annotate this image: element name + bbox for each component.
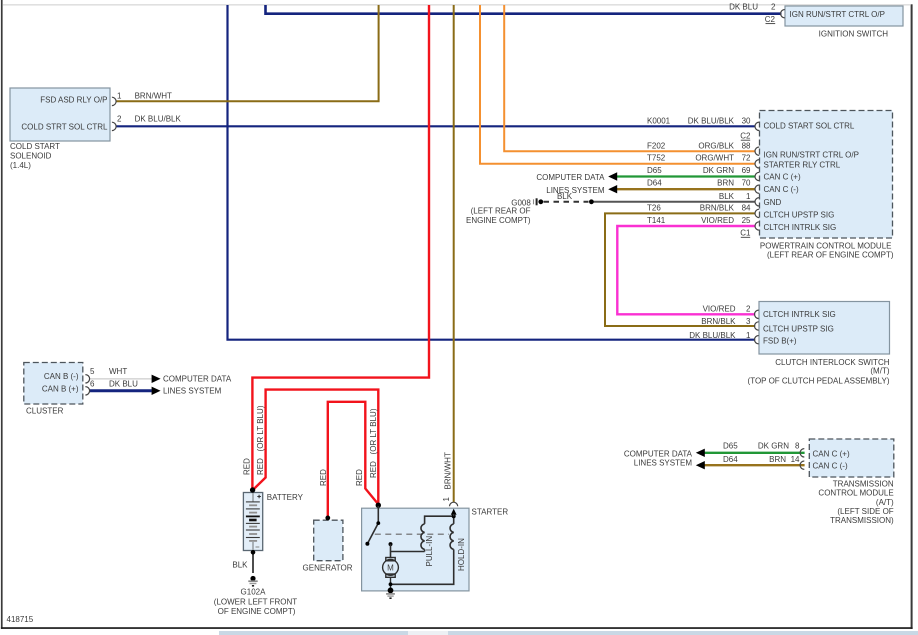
wire ORG/BLK F202: from top to PCM pin 88 xyxy=(504,5,755,151)
ground: starter case ground xyxy=(386,588,395,600)
svg-text:STARTER: STARTER xyxy=(472,508,509,517)
node: motor bottom junction xyxy=(389,582,393,586)
component box: powertrain control module U1 xyxy=(760,111,893,239)
arrow: computer data lines (cluster WHT) xyxy=(152,375,161,383)
label: cold start solenoid name xyxy=(10,142,60,170)
svg-text:8: 8 xyxy=(795,442,800,451)
svg-text:CAN B (+): CAN B (+) xyxy=(42,385,79,394)
node: battery positive junction xyxy=(250,487,255,492)
svg-text:STARTER RLY CTRL: STARTER RLY CTRL xyxy=(764,161,841,170)
svg-text:T141: T141 xyxy=(647,216,666,225)
svg-text:25: 25 xyxy=(742,216,751,225)
svg-text:RED (OR LT BLU): RED (OR LT BLU) xyxy=(369,408,378,478)
svg-text:VIO/RED: VIO/RED xyxy=(701,216,734,225)
node: switch fixed contact xyxy=(389,542,393,546)
svg-text:(A/T): (A/T) xyxy=(876,498,894,507)
wire BLK: battery negative to ground G102A xyxy=(252,550,254,573)
svg-text:TRANSMISSION): TRANSMISSION) xyxy=(830,516,894,525)
motor M1: starter motor xyxy=(383,558,399,591)
svg-text:BATTERY: BATTERY xyxy=(267,493,304,502)
wire BRN/BLK T26: PCM pin 84 to clutch interlock pin 3 xyxy=(605,213,755,326)
component box: clutch interlock switch xyxy=(759,302,890,355)
svg-text:CLTCH INTRLK SIG: CLTCH INTRLK SIG xyxy=(764,223,837,232)
svg-text:(LEFT SIDE OF: (LEFT SIDE OF xyxy=(837,507,893,516)
starter internal: contact to motor node wire xyxy=(391,544,425,557)
svg-text:84: 84 xyxy=(742,204,751,213)
wire BLK dashed segment to ground G008 xyxy=(544,201,589,203)
svg-text:C1: C1 xyxy=(740,229,751,238)
svg-text:BRN: BRN xyxy=(769,455,786,464)
svg-text:(1.4L): (1.4L) xyxy=(10,161,31,170)
svg-text:1: 1 xyxy=(746,331,751,340)
svg-text:FSD ASD RLY O/P: FSD ASD RLY O/P xyxy=(40,95,107,104)
svg-text:1: 1 xyxy=(442,497,451,502)
svg-text:COLD STRT SOL CTRL: COLD STRT SOL CTRL xyxy=(21,123,108,132)
svg-text:POWERTRAIN CONTROL MODULE: POWERTRAIN CONTROL MODULE xyxy=(760,241,892,250)
svg-text:COLD START SOL CTRL: COLD START SOL CTRL xyxy=(764,121,855,130)
svg-text:418715: 418715 xyxy=(7,615,34,624)
svg-text:IGN RUN/STRT CTRL O/P: IGN RUN/STRT CTRL O/P xyxy=(764,151,859,160)
svg-text:BRN/BLK: BRN/BLK xyxy=(700,204,735,213)
svg-text:DK BLU/BLK: DK BLU/BLK xyxy=(135,115,182,124)
labels: cold start solenoid pins xyxy=(21,92,181,132)
node: switch pivot xyxy=(376,521,380,525)
wire VIO/RED T141: PCM pin 25 to clutch interlock pin 2 xyxy=(617,226,755,314)
ground G102A symbol xyxy=(248,576,257,587)
labels: ignition switch xyxy=(729,2,888,38)
pin arc: cold start solenoid pin 1 xyxy=(112,97,116,105)
arrow: starter pin 1 feed xyxy=(451,509,457,515)
svg-text:ORG/WHT: ORG/WHT xyxy=(695,153,734,162)
node: generator terminal junction xyxy=(325,516,330,521)
svg-text:GENERATOR: GENERATOR xyxy=(303,563,353,572)
svg-text:RED: RED xyxy=(319,469,328,486)
svg-text:C2: C2 xyxy=(765,15,776,24)
svg-text:2: 2 xyxy=(771,2,776,11)
wire BRN/WHT: from top to starter pin 1 xyxy=(453,5,455,502)
labels: ground G102A xyxy=(214,587,298,616)
pin arcs: clutch interlock switch pins 2,3,1 xyxy=(755,310,759,344)
svg-text:3: 3 xyxy=(746,317,751,326)
svg-text:DK BLU/BLK: DK BLU/BLK xyxy=(688,117,735,126)
pin arcs: PCM pins 30,88,72,69,70,1,84,25 xyxy=(755,122,759,230)
svg-text:CLTCH UPSTP SIG: CLTCH UPSTP SIG xyxy=(763,324,834,333)
svg-text:CAN C (+): CAN C (+) xyxy=(764,172,801,181)
svg-text:69: 69 xyxy=(742,166,751,175)
pin arc: ignition switch pin 2 xyxy=(781,10,785,18)
svg-text:BLK: BLK xyxy=(719,192,735,201)
wire BLK: PCM pin 1 GND solid segment xyxy=(591,201,755,203)
wire BRN D64: TCM pin 14 CAN C (-) xyxy=(705,464,805,466)
coil: PULL-IN winding xyxy=(421,524,425,550)
wire DK BLU: to ignition switch pin 2 xyxy=(266,5,782,14)
svg-text:70: 70 xyxy=(742,178,751,187)
arrow: computer data lines (TCM CAN C +) xyxy=(696,449,705,457)
svg-text:CLTCH INTRLK SIG: CLTCH INTRLK SIG xyxy=(763,310,836,319)
svg-text:G102A: G102A xyxy=(241,587,267,596)
svg-text:PULL-IN: PULL-IN xyxy=(425,536,434,567)
arrow: computer data lines (PCM CAN C +) xyxy=(608,172,617,180)
labels: PCM internal pin names xyxy=(764,121,859,232)
svg-text:IGNITION SWITCH: IGNITION SWITCH xyxy=(819,29,889,38)
labels: TCM pin rows xyxy=(723,442,850,471)
component box: cold start solenoid xyxy=(10,88,110,141)
svg-text:D64: D64 xyxy=(723,455,738,464)
label: clutch interlock switch name xyxy=(748,358,890,386)
component box: cluster xyxy=(24,363,83,405)
wire RED: generator to starter terminal xyxy=(328,402,379,519)
svg-text:DK BLU/BLK: DK BLU/BLK xyxy=(689,331,736,340)
svg-text:VIO/RED: VIO/RED xyxy=(703,304,736,313)
svg-text:BLK: BLK xyxy=(557,192,573,201)
svg-text:1: 1 xyxy=(117,92,122,101)
svg-text:CAN C (-): CAN C (-) xyxy=(813,462,848,471)
wire RED: from top to battery positive xyxy=(252,5,429,490)
svg-text:DK BLU: DK BLU xyxy=(109,380,138,389)
svg-text:CLTCH UPSTP SIG: CLTCH UPSTP SIG xyxy=(764,211,835,220)
svg-text:CAN C (-): CAN C (-) xyxy=(764,185,799,194)
svg-text:COLD START: COLD START xyxy=(10,142,60,151)
svg-text:GND: GND xyxy=(764,198,782,207)
svg-text:2: 2 xyxy=(117,115,122,124)
svg-text:HOLD-IN: HOLD-IN xyxy=(457,538,466,571)
svg-text:88: 88 xyxy=(742,142,751,151)
pin arcs: cluster pins 5,6 xyxy=(85,375,89,395)
svg-text:72: 72 xyxy=(742,153,751,162)
svg-text:D65: D65 xyxy=(647,166,662,175)
wire BRN D64: PCM pin 70 CAN C (-) xyxy=(616,188,756,190)
node: battery negative junction xyxy=(251,550,256,555)
svg-text:CLUSTER: CLUSTER xyxy=(26,407,64,416)
svg-text:ORG/BLK: ORG/BLK xyxy=(698,142,734,151)
svg-text:DK GRN: DK GRN xyxy=(758,442,789,451)
svg-text:RED (OR LT BLU): RED (OR LT BLU) xyxy=(256,405,265,475)
svg-text:5: 5 xyxy=(90,367,95,376)
svg-text:(TOP OF CLUTCH PEDAL ASSEMBLY): (TOP OF CLUTCH PEDAL ASSEMBLY) xyxy=(748,377,890,386)
labels: PCM pin rows xyxy=(647,117,751,238)
label: TCM name xyxy=(818,480,894,526)
node: starter battery terminal junction xyxy=(376,503,381,508)
arrow: computer data lines (cluster DK BLU) xyxy=(152,387,161,395)
ground G008 symbol xyxy=(534,198,544,205)
svg-text:CONTROL MODULE: CONTROL MODULE xyxy=(818,489,893,498)
svg-text:BRN/WHT: BRN/WHT xyxy=(444,452,453,489)
svg-text:DK BLU: DK BLU xyxy=(729,2,758,11)
svg-text:14: 14 xyxy=(791,455,800,464)
svg-text:30: 30 xyxy=(742,117,751,126)
svg-text:BRN/BLK: BRN/BLK xyxy=(701,317,736,326)
svg-text:COMPUTER DATA: COMPUTER DATA xyxy=(536,173,605,182)
svg-text:LINES SYSTEM: LINES SYSTEM xyxy=(634,458,693,467)
battery B1 internal plates xyxy=(246,493,260,550)
svg-text:F202: F202 xyxy=(647,142,666,151)
svg-text:CAN C (+): CAN C (+) xyxy=(813,449,850,458)
starter internal: solenoid switch blade xyxy=(367,506,378,544)
labels: clutch interlock switch pins xyxy=(689,304,836,345)
svg-text:FSD B(+): FSD B(+) xyxy=(763,336,797,345)
svg-text:SOLENOID: SOLENOID xyxy=(10,152,52,161)
starter internal: pull-in top wire xyxy=(425,516,454,524)
wire DK GRN D65: TCM pin 8 CAN C (+) xyxy=(705,452,805,454)
svg-text:1: 1 xyxy=(746,192,751,201)
svg-text:IGN RUN/STRT CTRL O/P: IGN RUN/STRT CTRL O/P xyxy=(790,10,885,19)
svg-text:D64: D64 xyxy=(647,178,662,187)
pin arcs: TCM pins 8,14 xyxy=(800,449,804,470)
svg-text:COMPUTER DATA: COMPUTER DATA xyxy=(163,375,232,384)
arrow: computer data lines (PCM CAN C -) xyxy=(608,185,617,193)
wire DK BLU/BLK FSD B(+) supply: vertical then to clutch interlock pin 1 xyxy=(228,5,756,340)
wire DK GRN D65: PCM pin 69 CAN C (+) xyxy=(616,175,756,177)
battery polarity marks + and - xyxy=(256,495,261,547)
component box: ignition switch xyxy=(785,6,903,26)
svg-text:D65: D65 xyxy=(723,442,738,451)
svg-text:BRN: BRN xyxy=(717,178,734,187)
svg-text:BLK: BLK xyxy=(232,561,248,570)
labels: computer data lines at cluster xyxy=(163,375,232,396)
arrow: computer data lines (TCM CAN C -) xyxy=(696,461,705,469)
wire DK BLU: cluster pin 6 xyxy=(90,389,152,392)
svg-text:RED: RED xyxy=(243,458,252,475)
labels: computer data lines at TCM xyxy=(624,449,693,467)
svg-text:(LEFT REAR OF: (LEFT REAR OF xyxy=(471,206,531,215)
component box: transmission control module U2 xyxy=(809,439,894,477)
svg-text:M: M xyxy=(387,564,394,573)
node: BLK splice to ground G008 xyxy=(589,199,594,204)
pin arc: starter pin 1 xyxy=(450,502,458,506)
starter internal: hold-in wires and bottom return xyxy=(391,516,454,584)
svg-text:2: 2 xyxy=(746,304,751,313)
coil: HOLD-IN winding xyxy=(450,524,454,550)
node: coil feed junction xyxy=(452,514,456,518)
svg-text:ENGINE COMPT): ENGINE COMPT) xyxy=(466,216,531,225)
svg-text:OF ENGINE COMPT): OF ENGINE COMPT) xyxy=(218,607,296,616)
component box: generator xyxy=(314,520,343,561)
svg-text:6: 6 xyxy=(90,380,95,389)
wire RED (OR LT BLU): battery positive to starter terminal xyxy=(253,390,379,505)
svg-text:CAN B (-): CAN B (-) xyxy=(44,372,79,381)
svg-text:(LEFT REAR OF ENGINE COMPT): (LEFT REAR OF ENGINE COMPT) xyxy=(767,251,894,260)
component box: battery B1 xyxy=(243,493,262,551)
svg-text:COMPUTER DATA: COMPUTER DATA xyxy=(624,449,693,458)
pin arc: cold start solenoid pin 2 xyxy=(112,122,116,130)
svg-text:LINES SYSTEM: LINES SYSTEM xyxy=(163,387,222,396)
svg-text:BRN/WHT: BRN/WHT xyxy=(135,92,172,101)
starter internal: mechanical link dashed xyxy=(375,533,449,535)
wire WHT: cluster pin 5 xyxy=(90,378,152,380)
svg-text:WHT: WHT xyxy=(109,367,127,376)
wire ORG/WHT T752: from top to PCM pin 72 xyxy=(480,5,755,164)
label: PCM name xyxy=(760,241,894,259)
svg-text:DK GRN: DK GRN xyxy=(703,166,734,175)
svg-text:T752: T752 xyxy=(647,153,666,162)
wire DK BLU/BLK K0001: cold start solenoid pin 2 to PCM pin 30 xyxy=(116,125,755,127)
svg-text:(LOWER LEFT FRONT: (LOWER LEFT FRONT xyxy=(214,597,298,606)
svg-text:(M/T): (M/T) xyxy=(870,366,889,375)
labels: cluster pins xyxy=(42,367,138,394)
svg-text:K0001: K0001 xyxy=(647,117,671,126)
labels: computer data lines at PCM xyxy=(536,173,605,195)
wire BRN/WHT: cold start solenoid pin 1 upward xyxy=(116,5,379,101)
svg-text:C2: C2 xyxy=(740,131,751,140)
svg-text:LINES SYSTEM: LINES SYSTEM xyxy=(546,186,605,195)
svg-text:RED: RED xyxy=(355,469,364,486)
component box: starter xyxy=(362,508,469,591)
bottom toolbar band xyxy=(219,631,918,635)
svg-text:TRANSMISSION: TRANSMISSION xyxy=(833,480,894,489)
node: switch blade tip xyxy=(365,542,369,546)
svg-text:T26: T26 xyxy=(647,204,661,213)
labels: ground G008 xyxy=(466,192,573,225)
